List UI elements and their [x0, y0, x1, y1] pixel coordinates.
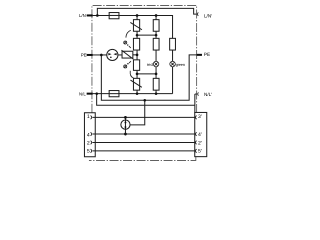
svg-text:3′: 3′ [198, 114, 202, 120]
svg-text:4′: 4′ [198, 132, 202, 138]
svg-text:PE: PE [81, 53, 87, 58]
svg-text:L/N: L/N [79, 13, 86, 18]
svg-text:red: red [147, 62, 154, 67]
svg-text:N/L′: N/L′ [204, 92, 212, 97]
svg-text:2: 2 [87, 140, 90, 146]
svg-text:N/L: N/L [79, 91, 86, 96]
svg-text:L/N′: L/N′ [204, 13, 212, 18]
svg-text:green: green [176, 62, 185, 67]
svg-text:1: 1 [87, 114, 90, 120]
svg-text:5′: 5′ [198, 149, 202, 155]
svg-text:2′: 2′ [198, 140, 202, 146]
svg-text:5: 5 [87, 149, 90, 155]
svg-text:PE: PE [204, 52, 210, 57]
svg-text:4: 4 [87, 132, 90, 138]
